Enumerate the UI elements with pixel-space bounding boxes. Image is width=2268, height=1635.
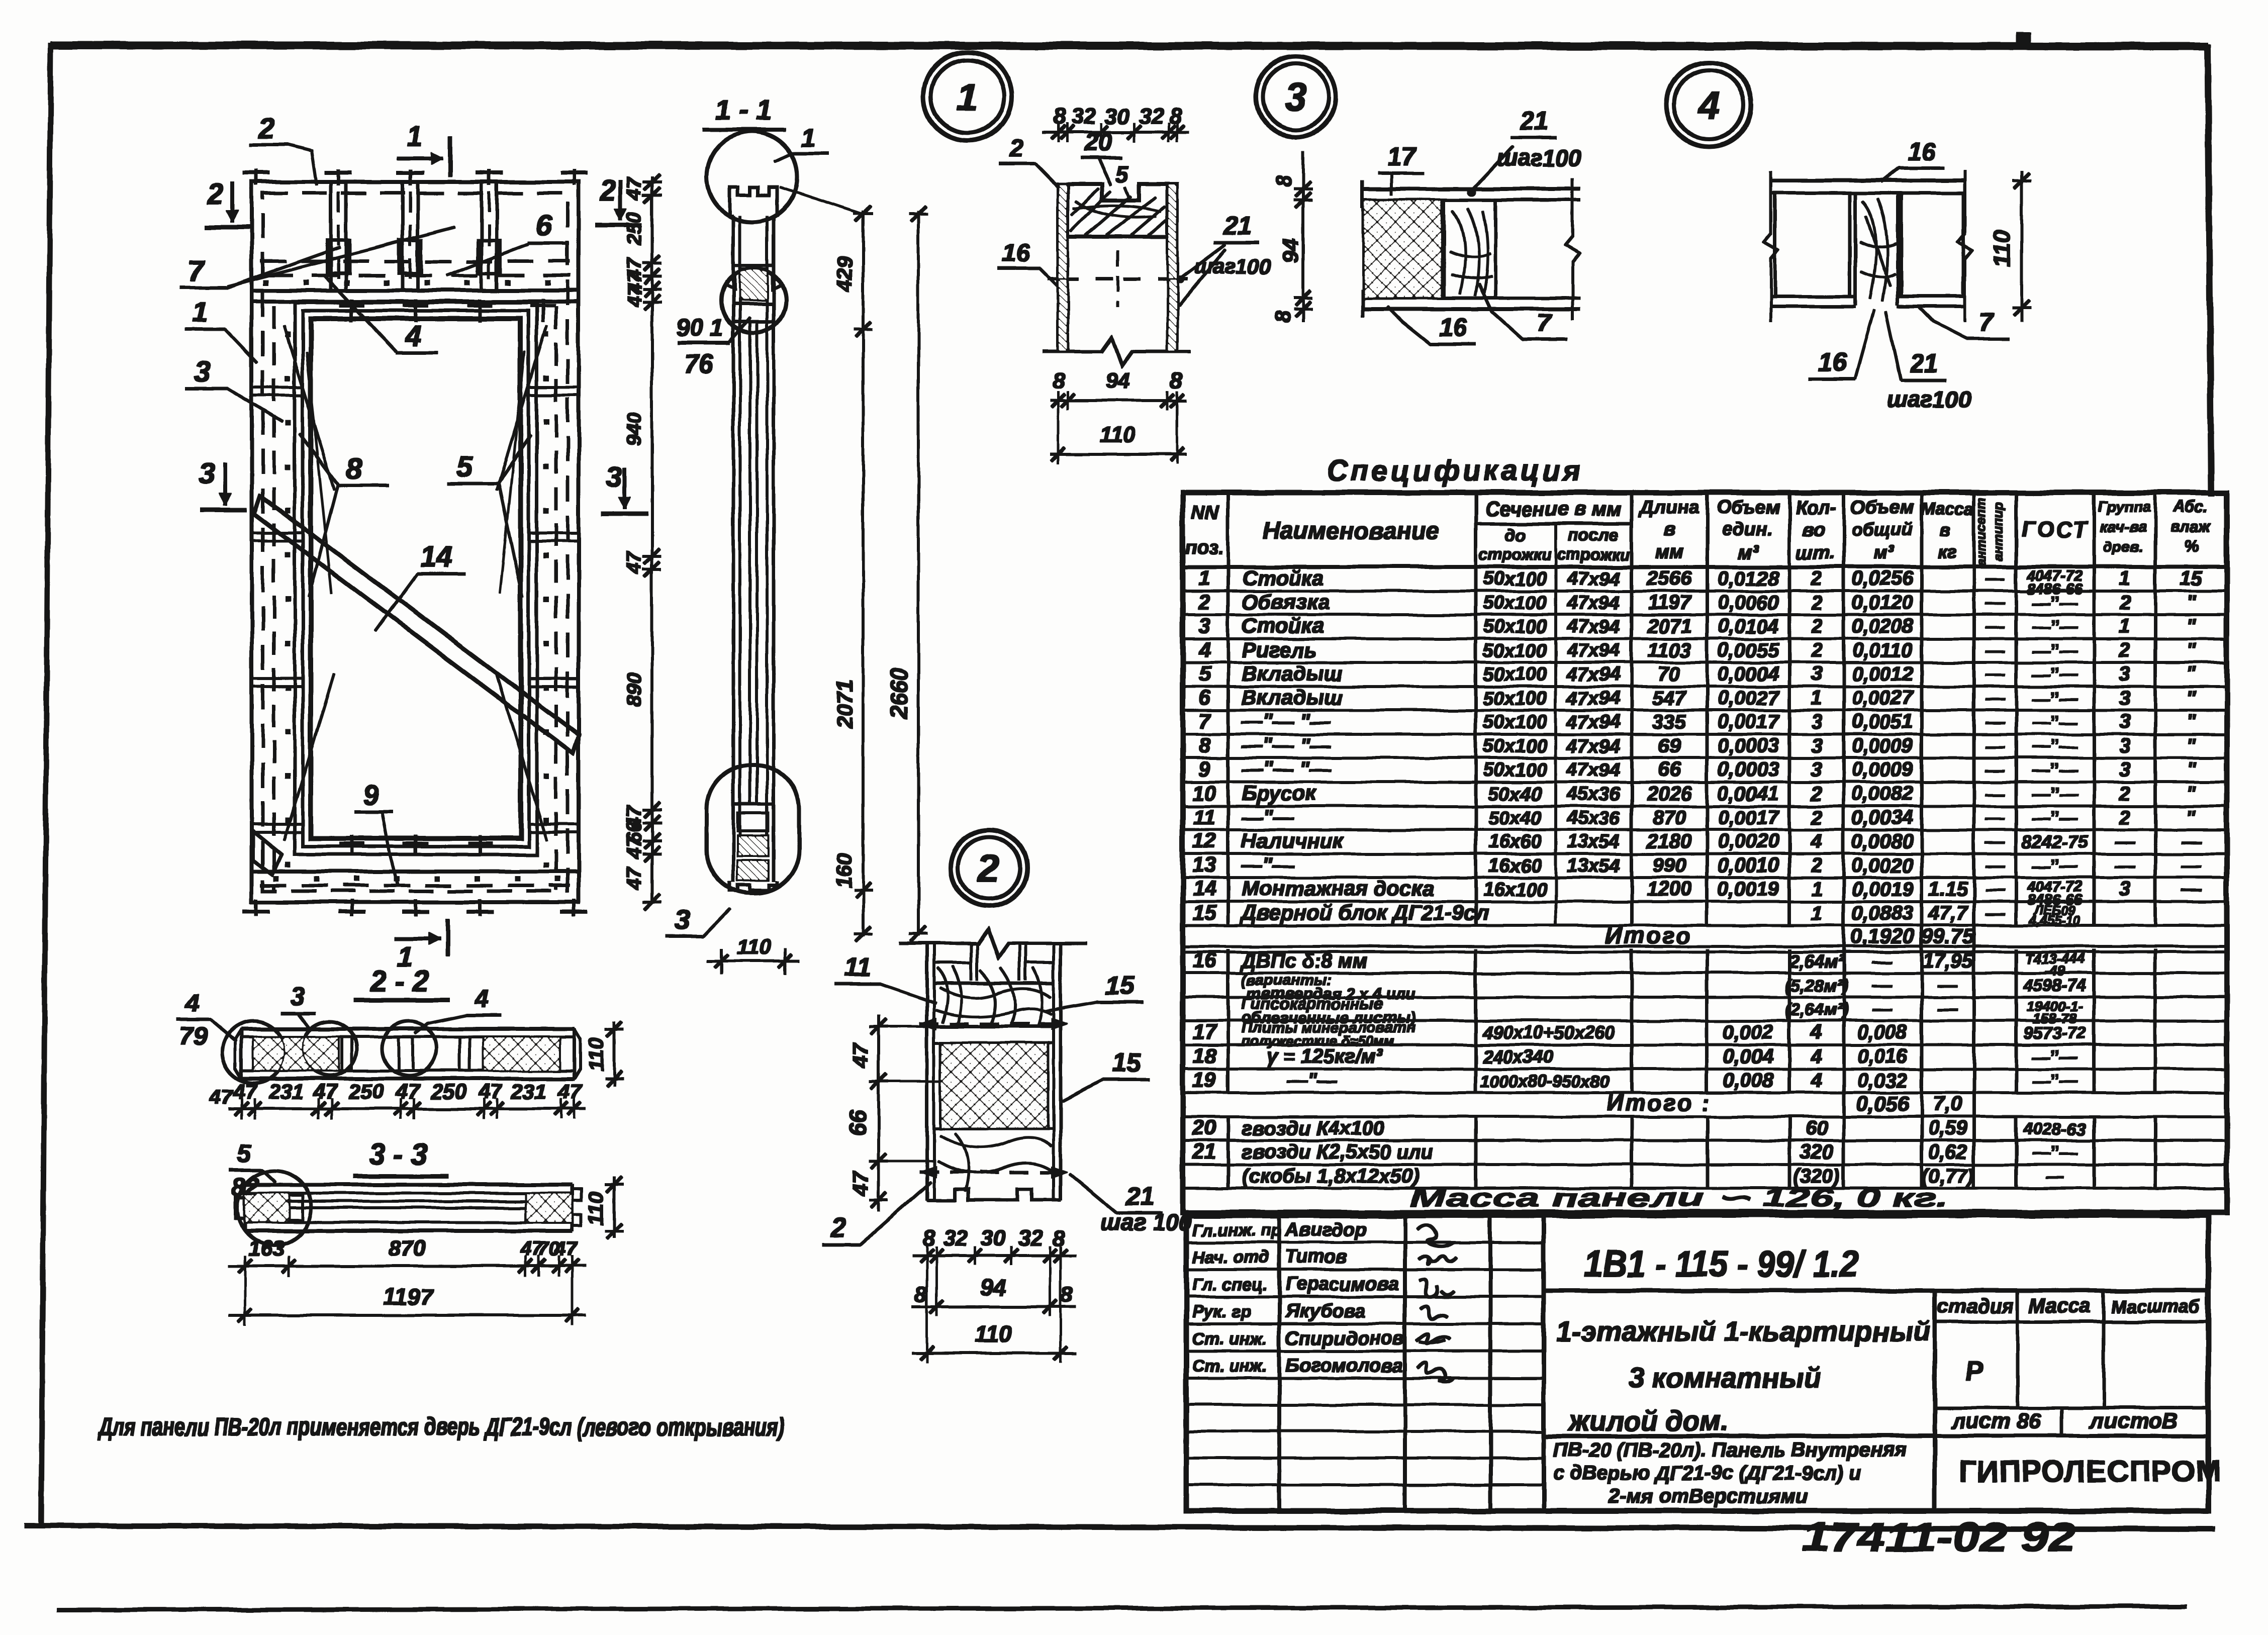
svg-text:32: 32 bbox=[943, 1226, 968, 1251]
spec header bottom line bbox=[1183, 565, 2227, 568]
svg-text:Масса: Масса bbox=[1921, 500, 1973, 519]
svg-text:—: — bbox=[1985, 879, 2005, 900]
svg-text:Авигдор: Авигдор bbox=[1285, 1219, 1367, 1240]
svg-text:47: 47 bbox=[210, 1086, 233, 1108]
svg-text:16х100: 16х100 bbox=[1483, 879, 1547, 900]
detail 1: lintel with notch bbox=[1068, 184, 1168, 237]
section 1-1 dim line B (2660) bbox=[917, 211, 919, 936]
svg-text:—: — bbox=[1985, 664, 2005, 685]
svg-text:(5,28м²): (5,28м²) bbox=[1785, 976, 1848, 995]
stage P bbox=[1935, 1407, 2208, 1409]
svg-text:47: 47 bbox=[554, 1238, 578, 1260]
svg-text:3: 3 bbox=[1285, 75, 1306, 119]
svg-text:2: 2 bbox=[1811, 567, 1822, 590]
svg-text:50х100: 50х100 bbox=[1483, 759, 1547, 781]
detail circle 4 bbox=[1667, 62, 1751, 147]
svg-text:": " bbox=[2187, 592, 2197, 614]
svg-text:3: 3 bbox=[2119, 663, 2130, 685]
svg-text:8242-75: 8242-75 bbox=[2022, 831, 2089, 852]
svg-text:94: 94 bbox=[980, 1275, 1006, 1301]
svg-text:320: 320 bbox=[1800, 1141, 1834, 1163]
detail 4 dim 110 bbox=[2021, 171, 2023, 322]
detail 2: vertical boards bbox=[926, 943, 928, 1200]
svg-text:47: 47 bbox=[623, 836, 645, 859]
svg-text:влаж: влаж bbox=[2170, 517, 2212, 535]
staff table columns bbox=[1278, 1215, 1281, 1511]
svg-text:10: 10 bbox=[1193, 781, 1216, 805]
panel elevation outer frame bbox=[252, 182, 579, 902]
svg-text:2: 2 bbox=[2119, 592, 2130, 614]
svg-text:0,0017: 0,0017 bbox=[1718, 711, 1780, 733]
section 3-3 callout circle bbox=[237, 1171, 312, 1245]
svg-text:лист 86: лист 86 bbox=[1950, 1409, 2042, 1433]
svg-text:8: 8 bbox=[1169, 104, 1182, 129]
svg-text:мм: мм bbox=[1655, 541, 1683, 562]
svg-text:6: 6 bbox=[1198, 686, 1210, 709]
svg-text:50х100: 50х100 bbox=[1483, 616, 1547, 637]
svg-text:гвозди К4х100: гвозди К4х100 bbox=[1242, 1117, 1385, 1139]
svg-text:": " bbox=[2187, 711, 2197, 733]
detail 1: dim 110 bbox=[1051, 453, 1186, 455]
svg-text:антипир: антипир bbox=[1991, 502, 2006, 561]
svg-text:47: 47 bbox=[623, 551, 645, 574]
svg-text:32: 32 bbox=[1072, 104, 1096, 129]
svg-text:Итого :: Итого : bbox=[1606, 1090, 1711, 1116]
svg-text:7: 7 bbox=[1537, 309, 1552, 337]
svg-text:47х94: 47х94 bbox=[1566, 736, 1620, 757]
svg-text:2660: 2660 bbox=[886, 667, 912, 720]
detail 3 left dim 8/94/8 bbox=[1302, 151, 1304, 322]
svg-text:66: 66 bbox=[1658, 758, 1681, 781]
svg-text:—: — bbox=[1872, 950, 1893, 972]
svg-text:": " bbox=[2187, 735, 2197, 757]
section 2-2 dim 110 right bbox=[613, 1021, 615, 1086]
svg-text:163: 163 bbox=[248, 1236, 285, 1261]
svg-text:строжки: строжки bbox=[1557, 545, 1630, 563]
svg-text:Брусок: Брусок bbox=[1242, 781, 1317, 805]
svg-text:47: 47 bbox=[848, 1042, 873, 1068]
svg-text:2: 2 bbox=[1198, 590, 1210, 614]
svg-text:2: 2 bbox=[207, 177, 223, 210]
svg-text:47: 47 bbox=[623, 283, 645, 307]
svg-text:8: 8 bbox=[1170, 368, 1183, 393]
svg-text:32: 32 bbox=[1018, 1226, 1043, 1251]
svg-text:2: 2 bbox=[977, 846, 999, 891]
svg-text:—: — bbox=[1985, 616, 2005, 637]
svg-text:3: 3 bbox=[675, 905, 690, 935]
svg-text:Группа: Группа bbox=[2098, 499, 2150, 515]
svg-text:—: — bbox=[1985, 736, 2005, 757]
svg-text:9573-72: 9573-72 bbox=[2024, 1024, 2087, 1043]
svg-text:21: 21 bbox=[1910, 349, 1938, 377]
svg-text:4: 4 bbox=[474, 985, 489, 1013]
page bottom edge line bbox=[58, 1606, 2187, 1610]
detail 2: insulation hatch block bbox=[941, 1043, 1048, 1128]
svg-text:16: 16 bbox=[1439, 313, 1467, 341]
svg-text:—ˮ—: —ˮ— bbox=[2032, 1071, 2078, 1091]
svg-text:древ.: древ. bbox=[2103, 539, 2143, 555]
svg-text:70: 70 bbox=[1658, 663, 1681, 685]
svg-text:2: 2 bbox=[1009, 134, 1023, 162]
svg-text:3 комнатный: 3 комнатный bbox=[1629, 1362, 1820, 1393]
section 3-3 dim string 163/870/47,70,47 bbox=[229, 1265, 586, 1267]
svg-text:4598-74: 4598-74 bbox=[2023, 976, 2087, 995]
svg-text:—: — bbox=[1985, 831, 2005, 852]
svg-text:50х100: 50х100 bbox=[1483, 593, 1547, 614]
svg-text:": " bbox=[2187, 687, 2197, 709]
svg-text:0,1920: 0,1920 bbox=[1850, 924, 1915, 948]
svg-text:Спецификация: Спецификация bbox=[1327, 454, 1584, 487]
svg-text:250: 250 bbox=[348, 1080, 384, 1103]
svg-text:Монтажная доска: Монтажная доска bbox=[1242, 877, 1434, 900]
svg-text:до: до bbox=[1504, 526, 1526, 545]
svg-text:50х100: 50х100 bbox=[1483, 568, 1547, 590]
svg-text:21: 21 bbox=[1192, 1139, 1216, 1163]
svg-text:ГИПРОЛЕСПРОМ: ГИПРОЛЕСПРОМ bbox=[1959, 1455, 2221, 1488]
svg-text:17,95: 17,95 bbox=[1923, 950, 1973, 972]
svg-text:0,0120: 0,0120 bbox=[1852, 592, 1913, 614]
svg-text:12: 12 bbox=[1193, 829, 1216, 852]
svg-text:4: 4 bbox=[1811, 830, 1822, 852]
svg-text:0,0004: 0,0004 bbox=[1718, 663, 1779, 685]
spec table header verticals bbox=[1227, 493, 1230, 925]
svg-text:2: 2 bbox=[2119, 639, 2130, 661]
svg-text:0,0055: 0,0055 bbox=[1718, 639, 1779, 661]
svg-text:—ˮ—: —ˮ— bbox=[2032, 712, 2078, 732]
dashed marks row in head band bbox=[266, 274, 293, 277]
fastener marks door bottom bbox=[351, 835, 353, 854]
svg-text:2: 2 bbox=[600, 174, 616, 207]
svg-text:110: 110 bbox=[584, 1038, 608, 1072]
svg-text:17: 17 bbox=[1193, 1020, 1217, 1043]
svg-text:21: 21 bbox=[1125, 1182, 1155, 1211]
svg-text:8: 8 bbox=[346, 452, 363, 485]
svg-text:Якубова: Якубова bbox=[1285, 1301, 1365, 1322]
page frame right border bbox=[2208, 44, 2211, 496]
svg-text:Вкладыш: Вкладыш bbox=[1242, 686, 1343, 709]
svg-text:1197: 1197 bbox=[384, 1284, 434, 1310]
svg-text:": " bbox=[2187, 639, 2197, 661]
svg-text:870: 870 bbox=[389, 1236, 426, 1261]
svg-text:0,056: 0,056 bbox=[1856, 1092, 1909, 1115]
svg-text:11: 11 bbox=[1193, 805, 1215, 829]
svg-text:—ˮ—: —ˮ— bbox=[2032, 640, 2078, 661]
detail 2 bottom dim 8 32 30 32 8 bbox=[912, 1255, 1076, 1257]
svg-text:—"—: —"— bbox=[1241, 853, 1294, 877]
detail circle 3 bbox=[1256, 56, 1336, 137]
svg-text:0,0020: 0,0020 bbox=[1852, 854, 1913, 877]
svg-text:3: 3 bbox=[1198, 614, 1210, 637]
svg-text:2566: 2566 bbox=[1647, 567, 1692, 590]
svg-text:429: 429 bbox=[833, 256, 857, 292]
detail 2: upper blocks wood grain bbox=[934, 961, 971, 964]
detail 4: top board bbox=[1771, 179, 1965, 182]
svg-text:250: 250 bbox=[623, 212, 645, 246]
detail 4: right panel block bbox=[1901, 193, 1963, 297]
svg-text:шаг100: шаг100 bbox=[1887, 386, 1971, 412]
svg-text:9: 9 bbox=[1198, 757, 1210, 781]
svg-text:0,0082: 0,0082 bbox=[1852, 783, 1913, 805]
svg-text:110: 110 bbox=[584, 1192, 608, 1225]
svg-text:14: 14 bbox=[420, 541, 453, 573]
svg-text:4,455-10: 4,455-10 bbox=[2029, 913, 2081, 928]
svg-text:кг: кг bbox=[1938, 541, 1956, 562]
detail 1: right jamb board bbox=[1168, 184, 1177, 351]
svg-text:2: 2 bbox=[1811, 783, 1822, 805]
detail 3: wood stud block bbox=[1444, 200, 1495, 298]
dashed line over door header bbox=[261, 260, 570, 263]
detail 2: top break line bbox=[900, 929, 1087, 957]
svg-text:0,002: 0,002 bbox=[1723, 1021, 1773, 1043]
detail 2: bottom profile with feet bbox=[927, 1189, 1061, 1200]
svg-text:1: 1 bbox=[801, 124, 816, 153]
signature squiggles bbox=[1417, 1225, 1454, 1264]
svg-text:79: 79 bbox=[179, 1022, 207, 1050]
svg-text:8: 8 bbox=[1053, 1226, 1065, 1251]
svg-text:0,0041: 0,0041 bbox=[1718, 783, 1779, 805]
svg-text:—"—: —"— bbox=[1286, 1070, 1337, 1092]
svg-text:—: — bbox=[1872, 974, 1893, 996]
svg-text:2: 2 bbox=[1811, 854, 1822, 877]
section 2-2 detail callout circles bbox=[222, 1021, 285, 1083]
svg-text:—: — bbox=[2045, 1166, 2064, 1187]
frame blemish bbox=[2017, 32, 2031, 45]
board end small block bottom-left bbox=[253, 831, 281, 875]
svg-text:2: 2 bbox=[1811, 615, 1822, 637]
svg-text:Абс.: Абс. bbox=[2173, 497, 2208, 515]
svg-text:231: 231 bbox=[268, 1080, 304, 1103]
detail 1: bottom break line bbox=[1043, 337, 1191, 365]
svg-text:8: 8 bbox=[1061, 1282, 1073, 1307]
svg-text:160: 160 bbox=[832, 853, 856, 888]
svg-text:": " bbox=[2187, 663, 2197, 685]
svg-text:—: — bbox=[1985, 640, 2005, 661]
svg-text:0,0019: 0,0019 bbox=[1852, 878, 1914, 900]
svg-text:16: 16 bbox=[1908, 137, 1937, 165]
section 2-2 bar outline bbox=[241, 1027, 574, 1030]
detail 4: left panel block bbox=[1775, 193, 1850, 297]
section 1-1 bottom detail stadium bbox=[707, 765, 799, 894]
section 3-3 dim 110 right bbox=[613, 1177, 615, 1237]
svg-text:—ˮ—: —ˮ— bbox=[2032, 855, 2078, 876]
svg-text:Богомолова: Богомолова bbox=[1285, 1355, 1403, 1376]
svg-text:3 - 3: 3 - 3 bbox=[369, 1138, 427, 1171]
dot marks along columns bbox=[286, 332, 290, 336]
detail 2 dim 94 bbox=[912, 1306, 1076, 1308]
svg-text:Стойка: Стойка bbox=[1242, 614, 1324, 637]
svg-text:—ˮ—: —ˮ— bbox=[2032, 784, 2078, 804]
svg-text:Для панели ПВ-20л применяется: Для панели ПВ-20л применяется дверь ДГ21… bbox=[97, 1413, 785, 1441]
page frame top border bbox=[51, 45, 2208, 46]
svg-text:50х40: 50х40 bbox=[1488, 808, 1542, 829]
svg-text:—: — bbox=[1872, 998, 1893, 1020]
svg-text:Длина: Длина bbox=[1638, 497, 1699, 518]
svg-text:—: — bbox=[1985, 903, 2005, 924]
top rail (обвязка) lines bbox=[252, 289, 579, 292]
svg-text:—"—: —"— bbox=[1241, 805, 1294, 829]
detail circle 2 bbox=[951, 830, 1027, 906]
svg-text:Масса: Масса bbox=[2029, 1295, 2091, 1317]
section 3-3 mid lines bbox=[281, 1207, 533, 1209]
svg-text:18: 18 bbox=[1193, 1044, 1216, 1068]
svg-text:17411-02 92: 17411-02 92 bbox=[1803, 1514, 2076, 1560]
svg-text:5: 5 bbox=[457, 450, 474, 483]
svg-text:Стойка: Стойка bbox=[1242, 566, 1324, 590]
svg-text:—ˮ—: —ˮ— bbox=[2032, 593, 2078, 613]
svg-text:335: 335 bbox=[1653, 711, 1686, 733]
svg-text:Гл.инж. пр: Гл.инж. пр bbox=[1192, 1221, 1281, 1240]
svg-text:4028-63: 4028-63 bbox=[2023, 1120, 2087, 1139]
svg-text:—: — bbox=[2181, 854, 2202, 877]
spec header subsplit bbox=[1476, 523, 1632, 525]
svg-text:0,0003: 0,0003 bbox=[1718, 758, 1779, 781]
svg-text:Р: Р bbox=[1965, 1356, 1984, 1386]
svg-text:0,0080: 0,0080 bbox=[1852, 830, 1913, 852]
svg-text:1000х80-950х80: 1000х80-950х80 bbox=[1480, 1072, 1610, 1091]
svg-text:0,0020: 0,0020 bbox=[1718, 830, 1779, 852]
svg-text:5: 5 bbox=[237, 1139, 252, 1168]
svg-text:1103: 1103 bbox=[1648, 639, 1691, 661]
svg-text:1: 1 bbox=[1811, 878, 1822, 900]
object description box bbox=[1544, 1434, 1935, 1438]
svg-text:66: 66 bbox=[844, 1110, 871, 1136]
svg-text:м³: м³ bbox=[1874, 542, 1895, 563]
svg-text:стадия: стадия bbox=[1937, 1295, 2014, 1317]
svg-text:32: 32 bbox=[1139, 104, 1164, 129]
svg-text:—ˮ—: —ˮ— bbox=[2032, 664, 2078, 685]
detail 1: left jamb board bbox=[1058, 184, 1068, 351]
svg-text:50х100: 50х100 bbox=[1483, 712, 1547, 733]
svg-text:47: 47 bbox=[623, 176, 645, 200]
svg-text:—ˮ—: —ˮ— bbox=[2032, 616, 2078, 637]
svg-text:": " bbox=[2187, 807, 2197, 829]
svg-text:Наличник: Наличник bbox=[1242, 829, 1344, 852]
svg-text:890: 890 bbox=[623, 673, 645, 707]
svg-text:30: 30 bbox=[981, 1226, 1006, 1251]
svg-text:ПВ-20 (ПВ-20л). Панель Внутрен: ПВ-20 (ПВ-20л). Панель Внутреняя bbox=[1553, 1439, 1906, 1461]
svg-text:231: 231 bbox=[511, 1080, 546, 1103]
svg-text:45х36: 45х36 bbox=[1566, 784, 1621, 805]
svg-text:—"— "—: —"— "— bbox=[1241, 709, 1331, 733]
svg-text:2: 2 bbox=[2119, 807, 2130, 829]
svg-text:листоВ: листоВ bbox=[2089, 1409, 2179, 1433]
svg-text:—: — bbox=[1985, 808, 2005, 829]
svg-text:1.15: 1.15 bbox=[1928, 878, 1968, 900]
svg-text:4: 4 bbox=[1811, 1045, 1822, 1068]
svg-text:47х94: 47х94 bbox=[1566, 759, 1620, 781]
svg-text:0,0010: 0,0010 bbox=[1718, 854, 1779, 877]
svg-text:Обвязка: Обвязка bbox=[1242, 590, 1330, 614]
svg-text:Ст. инж.: Ст. инж. bbox=[1192, 1357, 1267, 1376]
svg-text:3: 3 bbox=[199, 457, 215, 490]
svg-text:в: в bbox=[1940, 519, 1951, 540]
svg-text:47: 47 bbox=[623, 867, 645, 890]
svg-text:2,64м²: 2,64м² bbox=[1789, 951, 1845, 972]
svg-text:ГОСТ: ГОСТ bbox=[2021, 517, 2089, 542]
section 2-2 insulation blocks bbox=[253, 1037, 338, 1071]
detail 2: lower wood band bbox=[937, 1133, 1053, 1191]
section 2-2 end caps bbox=[235, 1029, 241, 1079]
panel elevation inner dashed contour bbox=[263, 193, 568, 891]
svg-text:4: 4 bbox=[184, 989, 199, 1017]
detail 2 dim 110 bbox=[912, 1352, 1076, 1354]
project name box bbox=[1933, 1291, 1937, 1511]
detail 2: line under header bbox=[934, 982, 1054, 985]
svg-text:8: 8 bbox=[1272, 175, 1295, 187]
svg-text:м³: м³ bbox=[1738, 542, 1759, 563]
svg-text:250: 250 bbox=[431, 1080, 466, 1103]
svg-text:жилой дом.: жилой дом. bbox=[1567, 1405, 1729, 1436]
svg-text:47,7: 47,7 bbox=[1928, 902, 1968, 924]
sheet row bbox=[1935, 1434, 2208, 1437]
svg-text:с дВерью ДГ21-9с (ДГ21-9сл): с дВерью ДГ21-9с (ДГ21-9сл) и bbox=[1553, 1462, 1861, 1484]
title block outer bbox=[1186, 1215, 2208, 1511]
svg-text:1: 1 bbox=[407, 120, 422, 152]
svg-text:—ˮ—: —ˮ— bbox=[2032, 808, 2078, 828]
svg-text:Вкладыш: Вкладыш bbox=[1242, 661, 1343, 685]
svg-text:Титов: Титов bbox=[1285, 1246, 1348, 1268]
svg-text:кач-ва: кач-ва bbox=[2100, 519, 2146, 535]
svg-text:15: 15 bbox=[2180, 567, 2203, 590]
svg-text:13х54: 13х54 bbox=[1567, 831, 1620, 852]
section 3-3 dim 1197 bbox=[229, 1314, 586, 1316]
svg-text:20: 20 bbox=[1192, 1116, 1216, 1139]
svg-text:490х10+50х260: 490х10+50х260 bbox=[1482, 1022, 1614, 1043]
svg-text:после: после bbox=[1568, 526, 1619, 545]
detail 2: nail dashed line lower bbox=[920, 1171, 1068, 1174]
section 3-3 right cap bbox=[526, 1193, 572, 1222]
svg-text:0,0027: 0,0027 bbox=[1718, 687, 1780, 709]
svg-text:15: 15 bbox=[1193, 901, 1216, 924]
spec table outer border bbox=[1183, 493, 2227, 1212]
svg-text:8: 8 bbox=[1198, 733, 1210, 757]
section 1-1 dim line A (429/2071/160) bbox=[862, 211, 864, 936]
detail 1: nail dashes bbox=[1048, 278, 1078, 280]
svg-text:0,0027: 0,0027 bbox=[1852, 687, 1914, 709]
svg-text:2: 2 bbox=[1811, 592, 1822, 614]
svg-text:13х54: 13х54 bbox=[1567, 855, 1620, 877]
svg-text:8: 8 bbox=[1054, 104, 1066, 129]
thin corner braces bbox=[284, 326, 334, 490]
detail 2: second wood band bbox=[934, 1025, 1054, 1028]
svg-text:Гл. спец.: Гл. спец. bbox=[1192, 1275, 1268, 1294]
svg-text:0,59: 0,59 bbox=[1928, 1117, 1968, 1139]
door opening casing mid bbox=[303, 311, 529, 846]
svg-text:—: — bbox=[1985, 568, 2005, 590]
svg-text:50х100: 50х100 bbox=[1483, 664, 1547, 685]
svg-text:547: 547 bbox=[1653, 687, 1687, 709]
svg-text:общий: общий bbox=[1851, 519, 1913, 540]
svg-text:0,0017: 0,0017 bbox=[1718, 807, 1780, 829]
svg-text:0,016: 0,016 bbox=[1857, 1045, 1908, 1068]
svg-text:4: 4 bbox=[1198, 638, 1210, 661]
svg-text:0,0883: 0,0883 bbox=[1852, 902, 1913, 924]
svg-text:4: 4 bbox=[1811, 1021, 1822, 1043]
detail 3: insulation hatch block bbox=[1364, 200, 1442, 298]
svg-text:7: 7 bbox=[1979, 308, 1995, 336]
svg-text:990: 990 bbox=[1653, 854, 1686, 877]
svg-text:Кол-: Кол- bbox=[1795, 497, 1836, 518]
svg-text:3: 3 bbox=[2119, 711, 2130, 733]
door opening casing outer bbox=[295, 303, 537, 854]
svg-text:11: 11 bbox=[844, 953, 871, 982]
svg-text:": " bbox=[2187, 758, 2197, 781]
svg-text:—ˮ—: —ˮ— bbox=[2032, 1046, 2078, 1067]
stage/mass/scale header bbox=[1935, 1321, 2208, 1323]
section 1-1 mid detail circle bbox=[721, 268, 786, 333]
svg-text:1: 1 bbox=[2119, 615, 2130, 637]
svg-text:0,0009: 0,0009 bbox=[1852, 758, 1914, 781]
